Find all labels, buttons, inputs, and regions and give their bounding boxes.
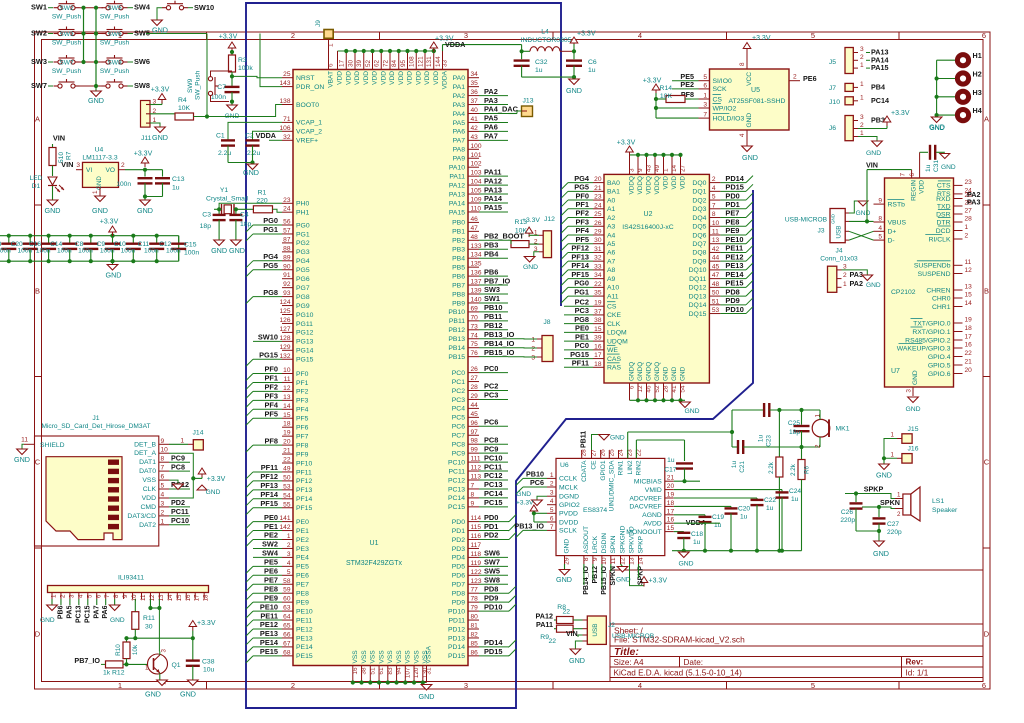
svg-text:PC13: PC13 [75, 605, 82, 623]
bus entry [746, 272, 753, 279]
node PF14 [568, 269, 593, 271]
U7 pin 4 D+ [874, 230, 885, 232]
svg-text:42: 42 [712, 246, 720, 253]
svg-text:100n: 100n [211, 94, 226, 101]
bus entry [561, 244, 568, 251]
svg-text:140: 140 [471, 296, 482, 303]
svg-text:PB5: PB5 [452, 264, 465, 271]
svg-text:WP/IO2: WP/IO2 [713, 105, 737, 112]
wire [193, 477, 202, 479]
svg-text:7: 7 [550, 524, 554, 531]
svg-text:PB6: PB6 [452, 273, 465, 280]
svg-text:J4: J4 [836, 248, 843, 255]
svg-text:SW3: SW3 [484, 285, 500, 294]
svg-text:18: 18 [283, 421, 291, 428]
power +3.3V [228, 42, 236, 48]
svg-text:20: 20 [594, 176, 602, 183]
U1 pin 74 PB13 [468, 338, 479, 340]
svg-text:CAS: CAS [607, 356, 621, 363]
svg-text:PE14: PE14 [296, 644, 313, 651]
wire [127, 663, 149, 665]
wire [132, 236, 134, 245]
J1 pin 9 DET_B [159, 443, 169, 445]
U2 pin 11 DQ6 [709, 234, 720, 236]
svg-text:PD9: PD9 [725, 296, 739, 305]
title block [610, 569, 983, 571]
wire [252, 417, 254, 419]
svg-text:PA3: PA3 [453, 102, 466, 109]
svg-text:PF3: PF3 [296, 398, 309, 405]
svg-text:143: 143 [279, 80, 290, 87]
node PC3 [564, 314, 593, 316]
svg-text:1: 1 [328, 43, 335, 47]
wire [150, 113, 175, 115]
node PF3 [568, 225, 593, 227]
wire [730, 506, 732, 508]
svg-text:PC9: PC9 [171, 453, 185, 462]
svg-text:Id: 1/1: Id: 1/1 [906, 669, 929, 678]
J1 pin 2 DAT3/CD [159, 515, 169, 517]
svg-text:24: 24 [594, 202, 602, 209]
svg-text:2: 2 [860, 54, 864, 61]
U1 pin 126 PG11 [282, 322, 293, 324]
wire [112, 236, 114, 245]
svg-text:DQ4: DQ4 [692, 215, 706, 222]
node PE12 [253, 628, 282, 630]
svg-text:VIN: VIN [61, 160, 73, 169]
node PC6 [523, 486, 547, 488]
wire J12 pin3 gnd [534, 252, 539, 257]
svg-text:PF11: PF11 [296, 469, 312, 476]
svg-text:GPIO.4: GPIO.4 [928, 354, 951, 361]
U2 pin 29 A4 [593, 234, 604, 236]
svg-text:SW6: SW6 [134, 57, 150, 66]
bus entry [746, 254, 753, 261]
svg-text:VDD: VDD [380, 71, 387, 85]
U1 pin 20 PF8 [282, 444, 293, 446]
U1 pin 21 PF9 [282, 453, 293, 455]
svg-text:96: 96 [471, 420, 479, 427]
connector J8 [542, 336, 553, 362]
wire [252, 646, 254, 648]
svg-text:CHR1: CHR1 [932, 304, 951, 311]
svg-text:31: 31 [426, 667, 433, 675]
U7 pin 15 CHR0 [954, 297, 963, 299]
svg-text:GND: GND [876, 471, 892, 480]
svg-text:220p: 220p [887, 529, 902, 536]
capacitor C7 [225, 86, 240, 88]
node PG5 [253, 269, 282, 271]
J1 pin 6 VSS [159, 479, 169, 481]
U1 pin 113 PC12 [468, 479, 479, 481]
U6 pin 27 CE [591, 450, 593, 458]
svg-text:PC2: PC2 [575, 297, 589, 306]
svg-text:3: 3 [68, 594, 75, 598]
svg-text:PA10: PA10 [449, 165, 465, 172]
U2 pin 37 CKE [593, 314, 604, 316]
svg-text:R6: R6 [804, 465, 811, 473]
svg-text:DACVREF: DACVREF [629, 504, 661, 511]
svg-text:PE15: PE15 [260, 647, 278, 656]
svg-text:PG3: PG3 [296, 249, 310, 256]
svg-text:19: 19 [283, 430, 291, 437]
svg-text:+3.3V: +3.3V [617, 140, 636, 147]
svg-text:21: 21 [594, 185, 602, 192]
bus entry [561, 279, 568, 286]
svg-text:GND: GND [905, 406, 920, 413]
svg-text:1: 1 [550, 472, 554, 479]
J1 pin 8 DAT1 [159, 461, 169, 463]
svg-text:GND: GND [14, 455, 30, 464]
svg-text:PC10: PC10 [484, 453, 503, 462]
U1 pin 135 PB5 [468, 266, 479, 268]
bus entry [561, 287, 568, 294]
svg-text:PB3: PB3 [452, 247, 465, 254]
svg-text:33: 33 [442, 59, 449, 67]
bus entry [561, 252, 568, 259]
svg-text:PC14: PC14 [484, 489, 503, 498]
svg-text:4: 4 [638, 681, 642, 690]
svg-text:PC11: PC11 [484, 462, 502, 471]
wire [801, 447, 803, 460]
svg-text:29: 29 [594, 228, 602, 235]
node PC11 [479, 470, 508, 472]
wire [231, 92, 233, 105]
U1 pin 7 PC13 [468, 488, 479, 490]
power +3.3V [570, 37, 578, 43]
U2 pin 22 A10 [593, 286, 604, 288]
svg-text:PA3: PA3 [967, 198, 980, 207]
wire [656, 117, 699, 119]
svg-text:5: 5 [811, 31, 815, 40]
svg-text:30: 30 [347, 59, 354, 67]
U6 pin 24 RIN1 [618, 450, 620, 458]
U7 pin 1 DCD [954, 230, 963, 232]
wire [338, 50, 434, 52]
node PB4 [479, 257, 508, 259]
svg-text:75: 75 [471, 341, 479, 348]
node PF11 [253, 471, 282, 473]
svg-text:22: 22 [965, 350, 973, 357]
svg-text:VIN: VIN [566, 631, 578, 638]
svg-text:SW_Push: SW_Push [100, 40, 130, 47]
svg-text:RIN1: RIN1 [618, 460, 625, 475]
U1 pin 40 PA4 [468, 113, 479, 115]
U2 pin 20 BA0 [593, 182, 604, 184]
bus entry [246, 566, 253, 573]
svg-text:C31: C31 [933, 160, 940, 172]
wire [674, 522, 720, 524]
svg-text:15: 15 [283, 412, 291, 419]
wire J2 vin [578, 635, 583, 637]
node PD8 [479, 592, 508, 594]
svg-text:PH1: PH1 [296, 210, 309, 217]
svg-text:38: 38 [361, 667, 368, 675]
svg-text:12: 12 [965, 267, 973, 274]
svg-text:PF3: PF3 [575, 217, 589, 226]
svg-text:SUSPENDb: SUSPENDb [914, 263, 951, 270]
U1 pin 11 PF1 [282, 381, 293, 383]
svg-text:104: 104 [471, 179, 482, 186]
U1 pin 88 PG3 [282, 251, 293, 253]
svg-text:PB14: PB14 [448, 345, 465, 352]
wire [252, 521, 254, 523]
U1 pin 70 PB11 [468, 320, 479, 322]
wire [630, 154, 681, 156]
wire J3 shield gnd [849, 201, 860, 213]
svg-text:PG12: PG12 [296, 330, 314, 337]
svg-text:PF11: PF11 [572, 359, 589, 368]
U2 pin 35 A11 [593, 295, 604, 297]
svg-text:GPIO.6: GPIO.6 [928, 371, 951, 378]
svg-text:1: 1 [891, 432, 895, 439]
svg-text:DQ15: DQ15 [689, 311, 707, 318]
bus entry [746, 307, 753, 314]
U1 pin 134 PB4 [468, 257, 479, 259]
svg-text:PD14: PD14 [448, 644, 465, 651]
svg-text:76: 76 [471, 350, 479, 357]
svg-text:45: 45 [471, 411, 479, 418]
svg-text:GPIO1: GPIO1 [600, 460, 607, 480]
svg-text:103: 103 [471, 170, 482, 177]
node PA11 [479, 175, 508, 177]
svg-text:9: 9 [471, 500, 475, 507]
U7 pin 13 CHREN [954, 289, 963, 291]
wire [252, 530, 254, 532]
svg-text:DQ12: DQ12 [689, 285, 707, 292]
U1 pin 8 PC14 [468, 497, 479, 499]
U6 pin 23 LIN2 [627, 450, 629, 458]
svg-text:14: 14 [283, 403, 291, 410]
power +3.3V [626, 146, 634, 152]
regulator U4 [83, 162, 119, 187]
U2 pin 50 DQ13 [709, 295, 720, 297]
svg-text:GNDQ: GNDQ [646, 362, 653, 381]
svg-text:129: 129 [279, 344, 290, 351]
svg-text:PA6: PA6 [102, 605, 109, 618]
svg-text:Conn_01x03: Conn_01x03 [820, 256, 858, 263]
svg-text:GND: GND [680, 366, 687, 381]
svg-text:Rev:: Rev: [906, 658, 924, 667]
U1 pin 73 PB12 [468, 329, 479, 331]
svg-text:SW6: SW6 [484, 549, 500, 558]
wire [123, 663, 127, 665]
svg-text:CS: CS [713, 96, 723, 103]
svg-text:PB0: PB0 [452, 220, 465, 227]
svg-text:48: 48 [712, 281, 720, 288]
node PE5 [253, 565, 282, 567]
svg-text:PD15: PD15 [448, 653, 465, 660]
svg-text:94: 94 [396, 667, 403, 675]
svg-text:DQ5: DQ5 [692, 224, 706, 231]
svg-text:25: 25 [608, 449, 615, 457]
svg-text:PF14: PF14 [296, 496, 312, 503]
svg-text:PE9: PE9 [264, 593, 278, 602]
power +3.3V [640, 577, 648, 583]
svg-text:23: 23 [283, 197, 291, 204]
wire [144, 183, 146, 200]
node PD10 [720, 313, 746, 315]
svg-text:PE7: PE7 [725, 209, 739, 218]
svg-text:VSSA: VSSA [426, 645, 433, 663]
svg-text:DQ8: DQ8 [692, 250, 706, 257]
U7 pin 23 CTS [954, 184, 963, 186]
svg-text:PE6: PE6 [264, 567, 278, 576]
svg-text:GND: GND [663, 366, 670, 381]
power +3.3V [652, 84, 660, 90]
bus entry [561, 261, 568, 268]
svg-text:+3.3V: +3.3V [752, 35, 771, 42]
bus entry [246, 481, 253, 488]
U6 pin 20 VMID [665, 489, 674, 491]
svg-text:SW4: SW4 [134, 3, 151, 12]
connector J15 [902, 434, 912, 444]
svg-text:VIN: VIN [53, 134, 65, 143]
svg-text:SCK: SCK [713, 86, 727, 93]
svg-text:74: 74 [471, 332, 479, 339]
svg-text:67: 67 [283, 640, 291, 647]
svg-text:19: 19 [667, 492, 675, 499]
usb connector J2 [587, 616, 606, 644]
bus entry [509, 533, 516, 540]
svg-text:U4: U4 [95, 147, 104, 154]
svg-text:GND: GND [873, 549, 889, 558]
svg-text:PC7: PC7 [452, 433, 465, 440]
svg-text:PE0: PE0 [575, 324, 589, 333]
U1 pin 58 PE7 [282, 583, 293, 585]
node VDDA [269, 139, 282, 141]
svg-text:125: 125 [279, 308, 290, 315]
wire [252, 592, 254, 594]
svg-text:PF15: PF15 [296, 505, 312, 512]
svg-text:PD8: PD8 [725, 287, 739, 296]
node PA4_DAC [479, 113, 508, 115]
U2 pin 24 A1 [593, 208, 604, 210]
svg-text:VSS: VSS [405, 650, 412, 664]
node PG0 [568, 286, 593, 288]
U2 pin 51 DQ14 [709, 304, 720, 306]
svg-text:35: 35 [594, 290, 602, 297]
svg-text:SW9: SW9 [187, 78, 194, 93]
svg-text:PC8: PC8 [171, 462, 185, 471]
bus entry [561, 270, 568, 277]
node PG15 [564, 358, 593, 360]
U1 pin 31 VSSA [426, 666, 428, 683]
svg-text:PA14: PA14 [484, 194, 503, 203]
mcu U1 body [293, 70, 468, 666]
svg-text:GNDQ: GNDQ [629, 362, 636, 381]
svg-text:PVDD: PVDD [559, 511, 578, 518]
svg-text:87: 87 [283, 236, 291, 243]
wire [0, 260, 179, 262]
svg-text:VI: VI [86, 167, 92, 174]
U7 top pins [911, 170, 913, 178]
svg-text:PD2: PD2 [452, 537, 465, 544]
svg-text:50: 50 [712, 290, 720, 297]
U1 pin 42 PA6 [468, 130, 479, 132]
svg-text:5: 5 [712, 194, 716, 201]
svg-text:PC11: PC11 [449, 468, 466, 475]
mounting hole H4 [957, 110, 968, 121]
ground [197, 485, 207, 490]
svg-text:1: 1 [860, 81, 864, 88]
wire VSS gnd [169, 480, 178, 484]
U2 pin 25 A2 [593, 217, 604, 219]
bus entry [246, 584, 253, 591]
node PE2 [253, 539, 282, 541]
bus entry [246, 234, 253, 241]
node PA13 [866, 52, 870, 54]
svg-text:GND: GND [929, 125, 944, 132]
U1 pin 56 PG0 [282, 224, 293, 226]
svg-text:PE14: PE14 [260, 638, 279, 647]
svg-text:34: 34 [594, 272, 602, 279]
node PE13 [253, 637, 282, 639]
U1 pin 81 PD12 [468, 628, 479, 630]
svg-text:PF13: PF13 [296, 487, 312, 494]
svg-text:30: 30 [145, 624, 153, 631]
svg-text:68: 68 [283, 649, 291, 656]
node PD2 [169, 506, 190, 508]
svg-text:28: 28 [965, 216, 973, 223]
U1 pin 105 PA13 [468, 193, 479, 195]
svg-text:SPKGND: SPKGND [620, 525, 627, 553]
svg-text:16: 16 [352, 667, 359, 675]
svg-text:8: 8 [113, 594, 120, 598]
svg-text:PA11: PA11 [536, 620, 553, 629]
wire [252, 146, 254, 164]
U6 pin 5 PVDD [547, 512, 556, 514]
node PA12 [479, 184, 508, 186]
svg-text:20: 20 [667, 483, 675, 490]
svg-text:UDQM: UDQM [607, 338, 628, 345]
svg-text:DQ14: DQ14 [689, 302, 707, 309]
svg-text:PC10: PC10 [448, 459, 465, 466]
node PD14 [479, 646, 508, 648]
svg-text:CDATA: CDATA [581, 460, 588, 482]
svg-text:DAT0: DAT0 [139, 468, 156, 475]
capacitor C5 [138, 177, 153, 179]
node PB7_IO [479, 284, 508, 286]
svg-text:NRST: NRST [296, 75, 315, 82]
wire [573, 619, 582, 621]
wire [227, 146, 229, 163]
sdcard shape [46, 457, 122, 540]
U1 pin 60 PE9 [282, 601, 293, 603]
ground [140, 200, 151, 206]
wire [638, 564, 640, 578]
svg-text:PD1: PD1 [452, 528, 465, 535]
svg-text:D+: D+ [888, 229, 897, 236]
svg-text:8: 8 [878, 216, 882, 223]
node PB11 [479, 320, 508, 322]
svg-text:PDR_ON: PDR_ON [296, 84, 324, 91]
svg-text:SHIELD: SHIELD [40, 442, 65, 449]
bus entry [246, 359, 253, 366]
U2 pin 45 DQ10 [709, 269, 720, 271]
svg-text:PE6: PE6 [296, 573, 309, 580]
svg-text:62: 62 [374, 59, 381, 67]
node PF0 [568, 199, 593, 201]
U1 pin 18 PF6 [282, 426, 293, 428]
svg-text:VREF+: VREF+ [296, 138, 318, 145]
U1 pin 23 PH0 [282, 202, 293, 204]
svg-text:PD11: PD11 [449, 617, 466, 624]
bus entry [746, 219, 753, 226]
U1 pin 15 PF5 [282, 417, 293, 419]
U2 pin 21 BA1 [593, 190, 604, 192]
wire [801, 410, 803, 425]
